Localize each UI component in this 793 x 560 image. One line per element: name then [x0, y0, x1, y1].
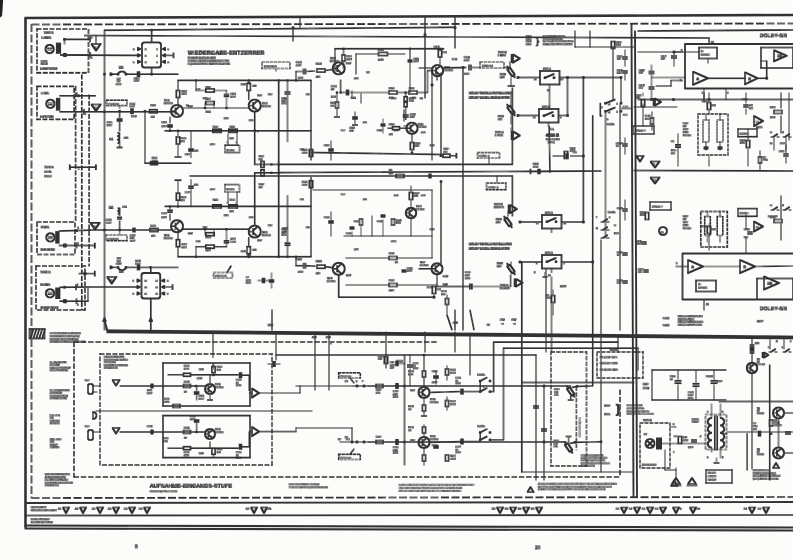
wire rows lower T204 stage [346, 257, 389, 259]
transistor T103 BC550C upper [249, 100, 261, 112]
wires lower IC switches [562, 261, 593, 263]
svg-text:5: 5 [157, 48, 159, 51]
svg-text:MESSPUNKTE: MESSPUNKTE [31, 506, 47, 509]
svg-text:R40?: R40? [554, 388, 560, 391]
triangle node C lower [651, 178, 660, 184]
svg-text:R212: R212 [206, 236, 212, 239]
dashed 50mV box a [478, 153, 500, 158]
svg-text:12: 12 [156, 280, 159, 283]
capacitor C107 15N upper [190, 131, 192, 148]
triangle node C upper [651, 162, 660, 168]
dashed level box upper input [107, 100, 128, 105]
svg-text:15N: 15N [350, 129, 354, 132]
svg-text:W.WIEDERGABE/AUFNAHME: W.WIEDERGABE/AUFNAHME [50, 332, 81, 335]
record cross verticals [543, 386, 545, 480]
svg-text:DUBB.: DUBB. [478, 425, 486, 428]
warning triangle record box [671, 481, 678, 487]
resistor R215 12K lower [229, 205, 237, 208]
svg-text:100V: 100V [131, 115, 137, 118]
record lower bottom rail out [239, 444, 241, 449]
wire staircase upper drop [493, 342, 495, 392]
wire horizontal y47 right [575, 46, 634, 48]
svg-text:R-RVP HEAD: R-RVP HEAD [41, 305, 58, 309]
resistor R145 4796 [641, 100, 644, 107]
capacitor C? on rail [428, 174, 430, 178]
svg-text:W = WIEDERGABE: W = WIEDERGABE [50, 389, 70, 392]
svg-text:560P: 560P [147, 392, 153, 395]
svg-text:5: 5 [157, 54, 159, 57]
svg-text:2.2K: 2.2K [430, 144, 435, 147]
wire loop top rail upper [178, 79, 311, 81]
page border bottom double [25, 526, 793, 528]
svg-text:R200: R200 [151, 225, 157, 228]
svg-text:R504: R504 [184, 381, 190, 384]
wire head L-AWK pin2 [65, 38, 91, 40]
wire T207 base left [419, 268, 432, 270]
capacitor C202 series lower [132, 228, 134, 232]
capacitor C133 10P [623, 56, 628, 58]
svg-text:MARCHE: MARCHE [50, 419, 60, 422]
svg-text:390: 390 [331, 104, 335, 107]
transistor T70B upper [419, 387, 430, 398]
record upper top rail out [239, 373, 241, 378]
capacitor crosses on verticals [534, 405, 539, 407]
svg-text:R-AWK: R-AWK [41, 283, 50, 287]
svg-text:C115: C115 [350, 127, 356, 130]
pot R242 22K lower [506, 262, 517, 275]
svg-text:L-WK.: L-WK. [41, 91, 49, 95]
page border top [25, 15, 793, 18]
transistor T601 BC550C [205, 429, 215, 439]
svg-text:TAPE B: TAPE B [643, 419, 652, 422]
svg-text:E/A = E/N: E/A = E/N [50, 414, 60, 417]
svg-text:50K: 50K [554, 442, 558, 445]
svg-text:100P: 100P [636, 243, 642, 246]
svg-text:220P: 220P [246, 282, 251, 285]
svg-text:C122: C122 [617, 251, 623, 254]
resistor R210 220 lower [306, 265, 315, 268]
svg-text:MICROPHONE BOARD: MICROPHONE BOARD [104, 358, 128, 361]
ground triangle right mid [637, 156, 644, 162]
wire B opamp output down [745, 103, 747, 114]
dashed head assembly vertical left [75, 86, 77, 222]
svg-text:C218: C218 [407, 267, 413, 270]
svg-text:L18: L18 [117, 257, 122, 260]
svg-text:TAPE B: TAPE B [41, 270, 51, 274]
svg-text:C4: C4 [671, 140, 675, 143]
svg-text:120: 120 [749, 104, 753, 107]
wire x781 lower [780, 196, 782, 218]
svg-text:2: 2 [617, 111, 619, 114]
svg-text:C?: C? [246, 276, 250, 279]
svg-text:3: 3 [227, 202, 228, 205]
svg-text:8T40:: 8T40: [683, 131, 689, 134]
svg-text:100V: 100V [683, 439, 689, 442]
svg-text:± 50MV ≈ 1: ± 50MV ≈ 1 [479, 155, 490, 158]
svg-text:12K: 12K [230, 210, 234, 213]
svg-text:W: W [614, 224, 616, 227]
svg-text:R111: R111 [206, 86, 212, 89]
svg-text:150: 150 [181, 199, 185, 202]
wire C132 to tape marker [472, 67, 480, 69]
svg-text:ERSATZTEIL MIT GLEICHER SPEZIF: ERSATZTEIL MIT GLEICHER SPEZIFIKATION VE… [399, 490, 462, 493]
resistor R146 4.7B [651, 118, 654, 124]
capacitor C118 56P [649, 71, 654, 73]
svg-text:P1.REGL.NIVEAU(CORR): P1.REGL.NIVEAU(CORR) [581, 459, 605, 462]
node D circle [93, 412, 97, 419]
resistor R149 [645, 213, 648, 220]
wire lamp pin7 to earth [664, 450, 666, 470]
horizontal cap link y156 [553, 155, 564, 157]
svg-text:ME 6,9F: ME 6,9F [708, 479, 717, 482]
svg-text:W: W [770, 131, 772, 134]
wire bottom out upper [255, 163, 279, 165]
svg-text:10U: 10U [638, 271, 642, 274]
svg-text:T204: T204 [327, 277, 333, 280]
svg-text:100V: 100V [393, 452, 399, 455]
resistor R227 22K lower [409, 193, 412, 200]
resistor R227 27R on lower bus [376, 441, 383, 444]
svg-text:50V: 50V [617, 282, 621, 285]
capacitor C113 2.2u [303, 69, 305, 74]
svg-text:TAPE A: TAPE A [500, 284, 509, 287]
svg-text:R115: R115 [230, 126, 236, 129]
transformer dashed outline [706, 415, 727, 450]
svg-text:220P: 220P [432, 381, 438, 384]
svg-text:T201: T201 [164, 234, 170, 237]
svg-text:11: 11 [534, 78, 537, 81]
svg-text:PIASTRA MICROFONO: PIASTRA MICROFONO [104, 364, 128, 367]
svg-text:880: 880 [444, 150, 448, 153]
filter F207 dashed box lower [701, 212, 728, 248]
svg-text:2200: 2200 [182, 246, 188, 249]
svg-text:T10: T10 [366, 71, 370, 74]
svg-text:801-113: 801-113 [683, 227, 692, 230]
svg-text:15K: 15K [217, 368, 221, 371]
svg-text:C207: C207 [185, 191, 191, 194]
legend hatched box [30, 329, 45, 339]
svg-text:1.2M: 1.2M [378, 59, 383, 62]
capacitor C221 x331 lower [329, 220, 334, 222]
transistor T601 collector to rail [209, 442, 211, 448]
svg-text:C330: C330 [432, 444, 438, 447]
svg-text:FREQUENZTEILEILUNG: FREQUENZTEILEILUNG [678, 321, 703, 324]
svg-text:[10601-019.10: [10601-019.10 [642, 464, 657, 467]
svg-text:A: A [133, 293, 135, 296]
svg-text:ALB VOL TAGE: ALB VOL TAGE [678, 318, 695, 321]
svg-text:100P: 100P [414, 60, 420, 63]
resistor A94 1.8M [770, 420, 773, 426]
svg-text:5: 5 [676, 262, 678, 265]
svg-text:R215: R215 [230, 199, 236, 202]
svg-text:R210: R210 [241, 250, 247, 253]
transistor T301 collector to rail [209, 375, 211, 383]
svg-text:± 50MV ≈ 1: ± 50MV ≈ 1 [488, 186, 499, 189]
svg-text:M1: M1 [124, 508, 128, 511]
svg-text:BC550C: BC550C [215, 386, 224, 389]
capacitor C777 series record lower [460, 439, 462, 444]
svg-text:801-113: 801-113 [683, 134, 692, 137]
wire R126 row [356, 53, 379, 55]
svg-text:L8: L8 [345, 380, 348, 383]
svg-text:R8: R8 [546, 294, 550, 297]
svg-text:TAPE B: TAPE B [44, 32, 53, 35]
svg-text:8M: 8M [683, 218, 686, 221]
svg-text:R144: R144 [533, 163, 539, 166]
transistor T204 BC550C lower out [333, 263, 345, 275]
svg-text:BC550C: BC550C [420, 264, 429, 267]
svg-text:C221: C221 [324, 216, 330, 219]
svg-text:8,2V: 8,2V [443, 283, 448, 286]
svg-text:15K: 15K [441, 293, 445, 296]
svg-text:7.5K: 7.5K [763, 159, 768, 162]
svg-text:56V: 56V [639, 87, 643, 90]
svg-text:M.3: M.3 [346, 438, 350, 441]
svg-text:12,5P: 12,5P [757, 320, 764, 323]
pot R142 220 [506, 65, 517, 78]
svg-text:BC550C: BC550C [262, 105, 271, 108]
svg-text:1: 1 [77, 304, 79, 307]
resistor R826 box lower [212, 448, 215, 454]
capacitor C604 lower [150, 430, 152, 434]
transformer bottom ground [716, 458, 718, 462]
resistor C7 10R [678, 437, 681, 444]
wire loop top rail lower [178, 256, 311, 258]
inductor L18 switch row U4 [110, 266, 117, 268]
svg-text:100: 100 [753, 428, 757, 431]
wire shield vertical [89, 55, 91, 96]
earth symbol 1 [672, 478, 680, 484]
svg-text:8T40:: 8T40: [683, 224, 689, 227]
svg-text:150K: 150K [546, 297, 552, 300]
svg-text:B: B [744, 265, 747, 269]
wire rail to C210 [295, 257, 297, 266]
svg-text:100V: 100V [393, 396, 399, 399]
svg-text:10: 10 [456, 448, 459, 451]
switch ME/ERA upper [227, 134, 229, 145]
svg-text:W: W [770, 204, 772, 207]
svg-text:C128: C128 [617, 279, 623, 282]
svg-text:1.5K: 1.5K [421, 131, 426, 134]
svg-text:0.2V: 0.2V [268, 93, 273, 96]
svg-text:3: 3 [707, 411, 709, 414]
svg-text:L-P HEAD: L-P HEAD [40, 115, 53, 119]
wire x747 drop [746, 434, 748, 470]
svg-text:50K: 50K [554, 391, 558, 394]
svg-text:R123: R123 [415, 142, 421, 145]
svg-text:100P: 100P [688, 446, 694, 449]
svg-text:R108: R108 [181, 137, 187, 140]
svg-text:1.2V: 1.2V [188, 105, 193, 108]
capacitor C124 [381, 123, 385, 125]
transistor TF 308-40 lower [773, 448, 784, 459]
svg-text:8F: 8F [757, 410, 760, 413]
svg-text:1U: 1U [617, 254, 620, 257]
wire T107 emitter down [436, 73, 438, 80]
svg-text:B3: B3 [505, 508, 509, 511]
marker tri record lower [252, 427, 259, 436]
wire long vertical x441 upper [440, 73, 442, 156]
svg-text:PLAYBACK: PLAYBACK [50, 392, 62, 395]
wire head R lower [59, 245, 95, 247]
svg-text:47K: 47K [247, 254, 251, 257]
wire C232 to pot lower [473, 286, 511, 288]
capacitor C134 56V [649, 86, 654, 88]
svg-text:BC550C: BC550C [430, 438, 439, 441]
FE CR ME box [706, 470, 732, 483]
resistor R226 1K lower [389, 257, 397, 260]
svg-text:0.47: 0.47 [341, 129, 346, 132]
svg-text:C103: C103 [134, 77, 140, 80]
pot R143 220 [506, 103, 517, 116]
capacitor C105 160P upper [168, 124, 173, 126]
svg-text:R605: R605 [184, 451, 190, 454]
svg-text:B: B [145, 61, 147, 64]
svg-text:5: 5 [236, 141, 237, 144]
wire x88 link [87, 287, 89, 301]
svg-text:1.5K: 1.5K [421, 194, 426, 197]
svg-text:220: 220 [152, 234, 156, 237]
svg-text:11: 11 [156, 286, 159, 289]
resistor R212 9K lower [204, 229, 206, 234]
svg-text:1: 1 [707, 456, 709, 459]
svg-text:100P: 100P [130, 239, 136, 242]
svg-text:V: V [95, 46, 97, 49]
svg-text:T103: T103 [262, 102, 268, 105]
wire x651 vertical [651, 65, 653, 70]
svg-text:R?46: R?46 [645, 115, 651, 118]
transistor TF 308-40 upper [773, 408, 784, 419]
record stage upper wire [120, 385, 205, 387]
svg-text:180: 180 [389, 133, 393, 136]
playback head L symbol [46, 100, 54, 108]
svg-text:MIKROFONPLATTE: MIKROFONPLATTE [104, 356, 125, 359]
svg-text:R103: R103 [152, 157, 158, 160]
wire vertical x620 [619, 105, 621, 330]
svg-text:R655: R655 [408, 405, 414, 408]
wire vertical x600 short [599, 102, 601, 116]
wire x621 from bus [620, 78, 622, 104]
svg-text:4: 4 [536, 262, 538, 265]
svg-text:B4: B4 [492, 508, 496, 511]
svg-text:6: 6 [722, 411, 724, 414]
wire T207 emitter output lower [436, 274, 438, 286]
svg-text:R149: R149 [640, 211, 646, 214]
svg-text:30V: 30V [453, 322, 458, 325]
switch cluster dubb upper [605, 102, 607, 104]
wire rail to C113 [295, 72, 297, 81]
svg-text:13,4V: 13,4V [560, 285, 567, 288]
svg-text:220: 220 [316, 76, 321, 79]
svg-text:V2: V2 [93, 225, 96, 228]
svg-text:2.2U: 2.2U [393, 393, 398, 396]
resistor R129 180 base [393, 127, 400, 130]
svg-text:ME/ERA: ME/ERA [227, 188, 235, 191]
svg-text:1: 1 [78, 168, 80, 171]
svg-text:2.2N: 2.2N [224, 214, 229, 217]
svg-text:L4: L4 [644, 433, 647, 436]
svg-text:7: 7 [673, 451, 675, 454]
svg-text:10P: 10P [390, 367, 394, 370]
wire long vertical x404 record [404, 355, 406, 465]
svg-text:100P: 100P [210, 143, 215, 146]
scan edge artifact [0, 0, 3, 17]
svg-text:R107: R107 [182, 90, 188, 93]
svg-text:+A: +A [501, 323, 504, 326]
resistor R113 20R upper [213, 129, 221, 132]
svg-text:BC550C: BC550C [164, 237, 173, 240]
svg-text:3: 3 [227, 141, 228, 144]
svg-text:LEVEL CONTROL: LEVEL CONTROL [627, 407, 645, 410]
svg-text:588.8?: 588.8? [692, 421, 699, 424]
svg-text:15: 15 [608, 111, 611, 114]
svg-text:10: 10 [413, 365, 416, 368]
svg-text:2.2U: 2.2U [464, 59, 469, 62]
wire pot R402 to x592 [572, 386, 577, 387]
switch cluster dubb lower [601, 221, 603, 223]
resistor R504 1K upper [184, 385, 191, 388]
wire T110 region stubs [360, 93, 362, 103]
svg-text:R234: R234 [427, 286, 433, 289]
svg-text:T70B: T70B [430, 435, 436, 438]
transistor T210 lower [406, 208, 416, 218]
svg-text:T207: T207 [420, 261, 426, 264]
dashed head assembly vertical [81, 75, 83, 310]
svg-text:1.2M: 1.2M [282, 100, 287, 103]
svg-text:1.2V: 1.2V [188, 232, 193, 235]
wire right page mirror pin rows [638, 279, 683, 281]
svg-text:4.2V: 4.2V [257, 94, 262, 97]
svg-text:PLAYBACK LEVEL: PLAYBACK LEVEL [543, 38, 563, 41]
svg-text:ENREGISTREMENT: ENREGISTREMENT [50, 366, 71, 369]
svg-text:1.2V: 1.2V [346, 274, 351, 277]
svg-text:C771: C771 [456, 377, 462, 380]
wire vertical x272 to band [271, 310, 273, 330]
svg-text:2.7M: 2.7M [184, 367, 189, 370]
record supply rail 50V [276, 354, 536, 356]
gnd stub under box4 [544, 273, 546, 277]
earth symbol 2 [688, 478, 696, 484]
svg-text:4066 B: 4066 B [546, 133, 559, 138]
svg-text:DOLBY PEGELEINSTELLUNG: DOLBY PEGELEINSTELLUNG [469, 91, 512, 95]
stage2 out rail extended [279, 171, 601, 173]
record stage lower wire [120, 431, 205, 433]
wire vertical x560 [557, 93, 559, 110]
resistor R826 top record [384, 357, 387, 364]
svg-text:1/4 IC1: 1/4 IC1 [545, 212, 553, 215]
wires dolby top box [675, 51, 699, 53]
capacitor C232 2.2u lower [469, 284, 471, 289]
D-KONST block [699, 48, 717, 59]
svg-text:LED = LED: LED = LED [50, 438, 62, 441]
svg-text:R826: R826 [378, 355, 384, 358]
svg-text:OFF: OFF [50, 441, 55, 444]
svg-text:10: 10 [156, 293, 159, 296]
title block line above measure row [25, 502, 793, 503]
svg-text:BC550C: BC550C [327, 280, 336, 283]
svg-text:1K: 1K [184, 391, 187, 394]
wire vertical x613 [612, 47, 614, 99]
capacitor C115 15N [353, 116, 358, 118]
resistor R? 150K bottom middle [551, 296, 554, 303]
svg-text:7.50: 7.50 [753, 425, 758, 428]
svg-text:A: A [133, 48, 135, 51]
resistor R225 2.2M lower [389, 284, 397, 287]
svg-text:0.47: 0.47 [341, 193, 346, 196]
svg-text:8.2V: 8.2V [203, 97, 208, 100]
svg-text:C154: C154 [636, 240, 642, 243]
resistor R826 box upper [212, 367, 215, 373]
